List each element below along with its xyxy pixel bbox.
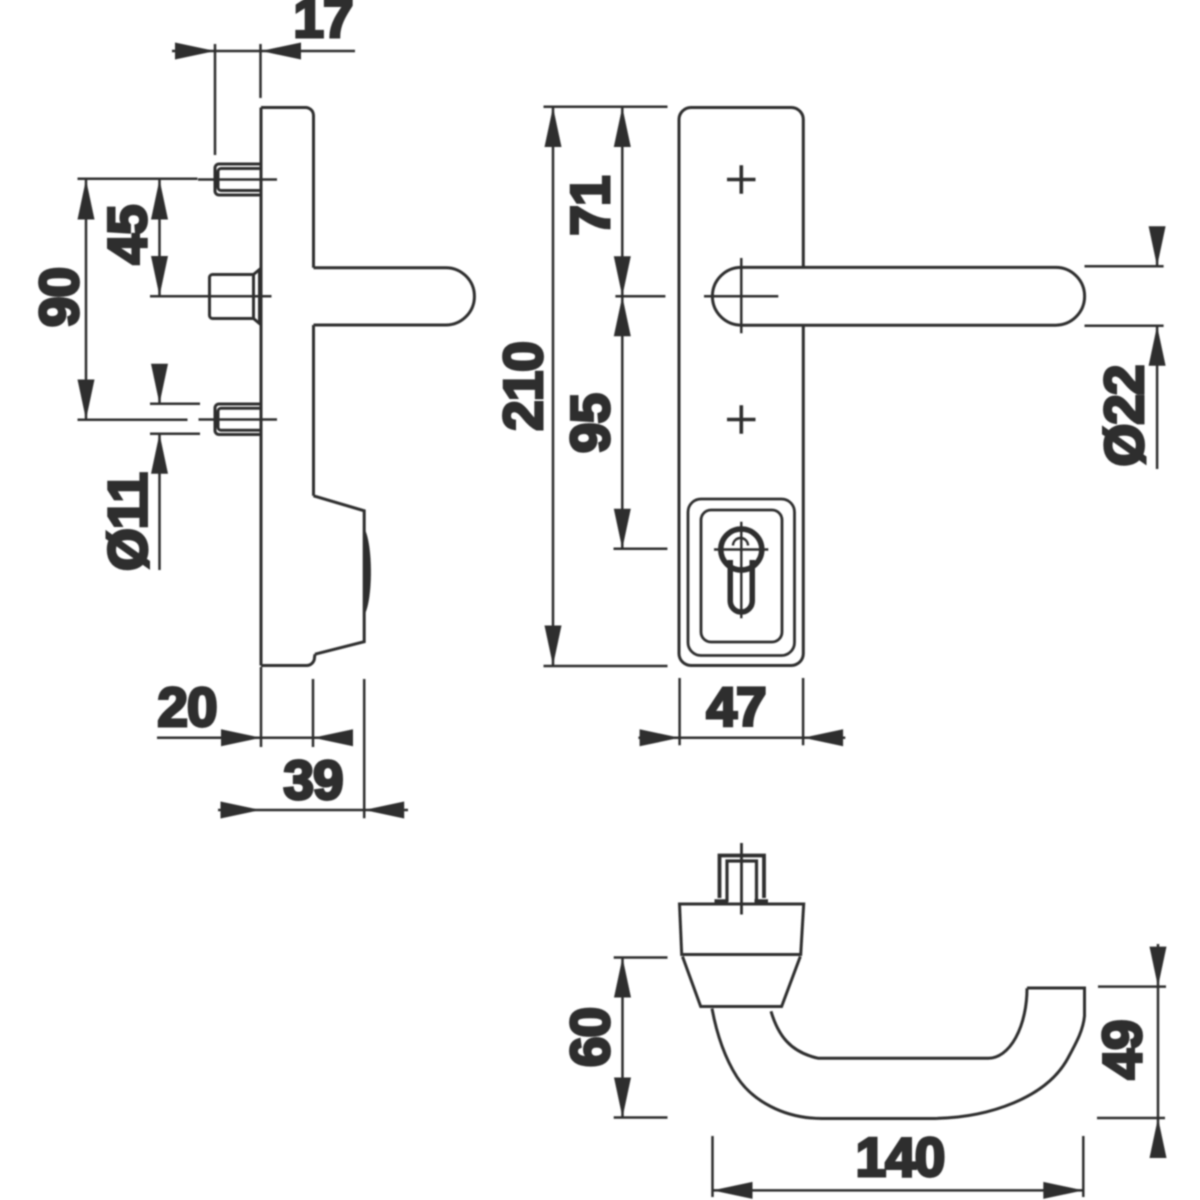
svg-text:17: 17: [293, 0, 352, 49]
svg-text:47: 47: [706, 676, 765, 738]
svg-text:39: 39: [283, 749, 342, 811]
spindle centerline: [740, 843, 743, 915]
svg-text:210: 210: [492, 342, 554, 431]
svg-text:140: 140: [856, 1126, 945, 1188]
front view plate: [679, 108, 803, 666]
svg-text:90: 90: [28, 268, 90, 327]
dimension 17: [172, 44, 355, 155]
dimension 39: [218, 679, 408, 818]
plus mark top: [727, 165, 756, 194]
spindle boss B2 centerline: [196, 295, 272, 298]
handle bar front view: [712, 267, 1084, 325]
dimension diameter 22: [1085, 227, 1164, 470]
side view plate: [261, 108, 315, 666]
handle bar side view: [314, 268, 475, 325]
cylinder crosshair: [714, 522, 768, 619]
handle neck crosshair: [704, 258, 778, 333]
svg-text:Ø11: Ø11: [97, 473, 159, 571]
cylinder protrusion side: [314, 496, 365, 654]
plus mark bottom: [727, 405, 756, 434]
screw boss B1 top: [215, 164, 260, 195]
svg-text:60: 60: [559, 1008, 621, 1067]
dimension 90: [78, 179, 198, 420]
neck cone top view: [683, 957, 801, 1007]
dimension diameter 11: [150, 364, 200, 570]
cylinder escutcheon outer: [688, 499, 795, 656]
svg-text:20: 20: [157, 676, 216, 738]
dimension 71: [615, 107, 665, 296]
handle arm top view: [712, 988, 1085, 1119]
dimension 140: [713, 1136, 1084, 1197]
svg-text:45: 45: [96, 205, 158, 265]
dimension 20: [157, 667, 351, 747]
cylinder profile: [721, 529, 762, 570]
screw boss B3 bottom: [215, 404, 260, 435]
svg-text:71: 71: [559, 176, 621, 236]
dimension 210: [544, 107, 668, 666]
dimension 60: [614, 958, 668, 1118]
spindle top view: [720, 856, 765, 899]
dimension 47: [638, 678, 845, 745]
screw boss B1 centerline: [198, 178, 277, 181]
dimension 45: [150, 180, 196, 297]
neck ferrule top view: [680, 904, 804, 955]
svg-text:49: 49: [1091, 1020, 1153, 1079]
cylinder stub black crescent: [363, 527, 371, 617]
svg-text:95: 95: [559, 394, 621, 454]
spindle boss B2 middle: [210, 275, 254, 319]
svg-text:Ø22: Ø22: [1093, 366, 1155, 467]
dimension 95: [614, 296, 668, 548]
dimension 49: [1097, 944, 1166, 1158]
cylinder escutcheon inner: [701, 510, 782, 642]
screw boss B3 centerline: [199, 418, 278, 421]
